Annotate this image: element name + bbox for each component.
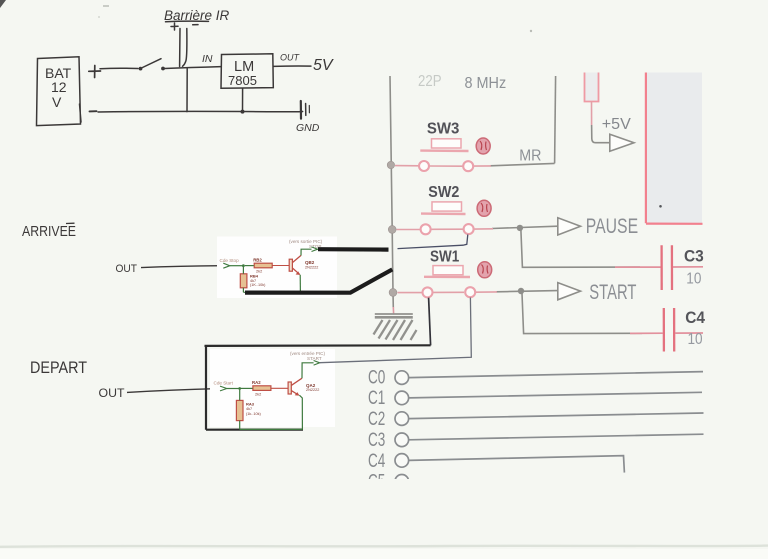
resistor RA3: [236, 400, 243, 420]
wire switch to IN junction: [165, 67, 222, 69]
svg-text:SW2: SW2: [428, 184, 459, 201]
svg-text:+5V: +5V: [602, 116, 631, 133]
port output arrow: [312, 247, 318, 252]
wire emitter net bottom: [240, 428, 303, 430]
svg-text:OUT: OUT: [280, 53, 301, 63]
ground bar tall: [300, 101, 302, 119]
IC U2 block (cut off): [646, 73, 703, 224]
wire regulator GND lead down: [242, 88, 244, 111]
scan band bottom edge: [0, 546, 768, 547]
wire emitter down: [299, 275, 301, 293]
port output arrow: [314, 361, 320, 366]
resistor RA2: [253, 386, 271, 391]
connector C0-C5: [368, 368, 704, 493]
scan speck top-left corner: [0, 0, 6, 8]
svg-text:2N2222: 2N2222: [305, 265, 318, 269]
resistor RB4: [240, 274, 247, 288]
wire junction to RA2: [241, 387, 253, 389]
switch SW2: [397, 184, 474, 234]
transistor QB2 2N2222: [289, 255, 301, 274]
svg-text:RA3: RA3: [246, 402, 255, 407]
svg-text:10: 10: [688, 331, 703, 348]
node START bus junction: [389, 289, 397, 297]
capacitor C3: [615, 245, 704, 290]
svg-text:ARRIVEE: ARRIVEE: [22, 223, 76, 240]
svg-text:2k2: 2k2: [256, 268, 262, 273]
svg-text:4k7: 4k7: [246, 407, 252, 411]
wire collector up: [302, 363, 314, 379]
svg-text:Cde Start: Cde Start: [214, 381, 234, 386]
node PAUSE bus junction: [388, 226, 396, 234]
wire bus pink tip at ground: [392, 307, 394, 314]
battery + terminal label: [89, 66, 101, 78]
svg-text:QB2: QB2: [305, 260, 315, 265]
wire junction down through RA3: [239, 390, 241, 430]
scan speck: [98, 16, 100, 18]
switch S1 contact dots: [139, 67, 143, 71]
wire SW1 to START buffer: [496, 291, 557, 292]
svg-text:MR: MR: [519, 148, 541, 165]
switch SW1: [398, 248, 476, 297]
svg-text:5V: 5V: [313, 57, 334, 74]
wire SW3 to MR corner: [490, 163, 555, 165]
barriere IR - lead: [183, 29, 187, 67]
ground tick: [308, 106, 310, 113]
svg-text:12: 12: [51, 79, 67, 95]
wire emitter down: [299, 395, 302, 429]
svg-text:PAUSE: PAUSE: [586, 214, 638, 238]
svg-text:RB2: RB2: [253, 258, 262, 263]
svg-text:C2: C2: [368, 409, 385, 430]
svg-text:10: 10: [686, 270, 701, 287]
svg-text:8 MHz: 8 MHz: [465, 75, 507, 92]
svg-text:GND: GND: [296, 122, 320, 134]
wire OUT arrivee to opto input: [141, 266, 222, 268]
macron over last E of ARRIVEE: [66, 222, 75, 224]
node MR bus junction: [387, 161, 394, 168]
svg-text:START: START: [589, 280, 636, 304]
svg-text:7805: 7805: [228, 73, 257, 88]
white paste patch: [217, 237, 337, 299]
battery BAT 12V text: [45, 65, 72, 110]
svg-text:22P: 22P: [418, 73, 442, 90]
wire thick: arrivee collector to SW2 bus: [318, 247, 389, 252]
svg-text:OUT: OUT: [116, 263, 138, 275]
wire START junction down to C4: [522, 294, 642, 334]
buffer PAUSE: [558, 218, 581, 235]
switch S1 lever: [143, 59, 162, 68]
wire battery - to ground: [98, 110, 303, 113]
svg-text:QA2: QA2: [306, 383, 316, 388]
resistor RB2: [254, 263, 272, 268]
wire PAUSE junction down to C3: [521, 230, 640, 267]
wire collector up: [301, 249, 312, 255]
svg-text:C4: C4: [685, 309, 706, 327]
wire input net: [230, 265, 244, 267]
svg-text:V: V: [52, 94, 62, 110]
svg-text:C1: C1: [368, 388, 385, 409]
wire thick: arrivee emitter to bus: [245, 269, 392, 292]
wire resistor lead (pink): [591, 102, 593, 126]
svg-text:(1K..10k): (1K..10k): [250, 283, 266, 287]
node regulator ground junction: [241, 110, 245, 114]
LED SW3 indicator: [476, 138, 490, 154]
svg-text:DEPART: DEPART: [30, 358, 87, 377]
svg-text:Cde Stop: Cde Stop: [220, 258, 240, 263]
wire LM7805 out to 5V: [274, 65, 312, 67]
wire junction down through RB4: [242, 267, 244, 293]
wire junction to RB2: [245, 265, 254, 267]
regulator U1 LM7805 box: [221, 54, 273, 89]
svg-text:RB4: RB4: [250, 274, 259, 279]
svg-text:C3: C3: [368, 430, 385, 451]
battery - terminal label: [90, 110, 97, 112]
switch SW3: [395, 120, 473, 171]
svg-text:OUT: OUT: [99, 388, 125, 400]
wire barriere return down: [186, 69, 188, 112]
svg-text:(1k..10k): (1k..10k): [246, 412, 262, 416]
ground (CAD): [374, 314, 417, 340]
wire pink stub SW2 right: [474, 228, 493, 230]
wire input net: [227, 388, 240, 390]
enclosure box around depart fragment: [205, 344, 431, 347]
wire right vertical (MR net): [555, 76, 556, 163]
buffer +5V: [610, 134, 634, 151]
scan speck: [530, 30, 532, 32]
barriere - polarity label: [193, 24, 198, 26]
wire main vertical bus left: [390, 76, 393, 308]
wire SW2 to PAUSE buffer: [492, 226, 557, 228]
underline of Barriere IR label: [166, 20, 209, 23]
svg-text:C3: C3: [684, 247, 704, 265]
wire box to SW1 left contact: [429, 298, 431, 346]
battery BAT 12V box: [37, 57, 82, 126]
svg-text:Barrière IR: Barrière IR: [164, 8, 230, 23]
capacitor C4: [630, 308, 706, 352]
LED SW1 indicator: [478, 262, 492, 278]
node base junction: [242, 264, 245, 267]
svg-text:RA2: RA2: [252, 380, 261, 385]
wire pink stub SW3 right: [474, 165, 492, 167]
svg-text:SW1: SW1: [430, 248, 459, 265]
wire OUT depart to opto input: [127, 389, 219, 393]
wire +5V resistor to buffer: [592, 125, 610, 143]
ground bar short: [305, 104, 307, 116]
buffer START: [558, 283, 581, 300]
node base junction: [238, 387, 241, 390]
wire battery + to switch: [100, 67, 138, 70]
svg-text:2N2222: 2N2222: [306, 388, 319, 392]
resistor R (+5V pull-up): [585, 73, 599, 102]
node START wire junction: [518, 288, 524, 294]
white paste patch: [210, 349, 335, 427]
svg-text:C4: C4: [368, 451, 386, 472]
svg-text:IN: IN: [202, 53, 213, 65]
scan speck top edge: [103, 5, 109, 7]
wire thin: bus to SW2 right contact: [398, 235, 468, 249]
port input arrow: [223, 263, 230, 268]
transistor QA2 2N2222: [288, 378, 302, 395]
wire emitter net bottom: [243, 291, 300, 293]
node PAUSE wire junction: [517, 225, 523, 231]
wire pink stub SW1 right: [476, 291, 498, 293]
svg-text:2k2: 2k2: [255, 392, 261, 397]
barriere IR + lead: [179, 29, 181, 67]
barriere + polarity label: [171, 23, 178, 30]
wire RB2 to base: [272, 265, 289, 267]
LED SW2 indicator: [477, 200, 491, 216]
port input arrow: [220, 386, 227, 391]
svg-text:SW3: SW3: [427, 120, 460, 137]
svg-text:C0: C0: [368, 368, 385, 389]
wire depart output to SW1 right contact: [320, 298, 472, 363]
wire RA2 to base: [271, 387, 288, 389]
